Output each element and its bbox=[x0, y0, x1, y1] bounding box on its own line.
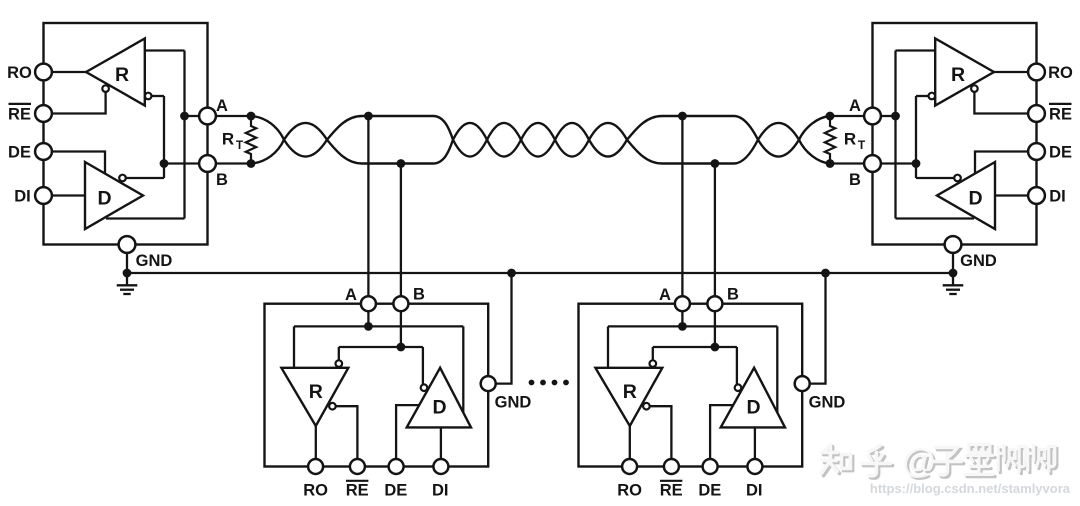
junction bus tap A (U3) bbox=[364, 112, 373, 121]
transceiver U1 (left) outline bbox=[44, 23, 208, 245]
svg-text:DE: DE bbox=[1049, 143, 1072, 161]
transceiver U3 (stub) outline bbox=[265, 304, 489, 467]
wire node B to D inverting output bubble (U3) bbox=[422, 347, 424, 384]
wire bus tap B to U3 bbox=[400, 164, 402, 297]
pin GND of U2 bbox=[945, 236, 962, 253]
enable bubble on R (U2) bbox=[971, 85, 978, 92]
wire DI pin to D input (U4) bbox=[754, 427, 756, 459]
pin B of U1 bbox=[199, 155, 216, 172]
wire bus tap A to U4 bbox=[681, 116, 683, 296]
wire GND pin to ground bus (U1) bbox=[126, 253, 128, 273]
wire pin B to node B (U3) bbox=[400, 311, 402, 347]
wire GND pin to ground bus (U4) bbox=[810, 273, 826, 384]
wire vertical node A link (U1) bbox=[183, 51, 185, 219]
inverting output bubble on D (U3) bbox=[421, 384, 428, 391]
wire RE pin to R enable bubble (U1) bbox=[51, 92, 106, 114]
op-amp (receiver) R of U4 bbox=[595, 368, 662, 426]
pin RO of U1 bbox=[35, 64, 52, 81]
junction RT top (right) bbox=[826, 112, 835, 121]
pin GND of U4 bbox=[795, 376, 810, 391]
junction ground bus (U3) bbox=[507, 269, 516, 278]
wire R inverting input to node B (U2) bbox=[916, 95, 929, 97]
wire bus line B (twisted pair) bbox=[251, 123, 830, 164]
wire DE pin to D enable (U2) bbox=[975, 152, 1030, 174]
svg-text:RO: RO bbox=[1048, 64, 1073, 82]
pin B of U2 bbox=[864, 155, 881, 172]
wire R enable bubble to RE pin (U4) bbox=[650, 406, 672, 459]
svg-text:RO: RO bbox=[7, 64, 32, 82]
inverting output bubble on D (U2) bbox=[954, 175, 961, 182]
pin DI of U4 bbox=[747, 459, 762, 474]
wire bus tap A to U3 bbox=[367, 116, 369, 296]
resistor RT (right termination) bbox=[825, 116, 835, 164]
svg-text:DE: DE bbox=[698, 481, 721, 499]
inverting input bubble B on R (U2) bbox=[929, 93, 936, 100]
wire node B to R inverting input bubble (U3) bbox=[338, 347, 340, 360]
svg-text:R: R bbox=[309, 381, 323, 403]
svg-text:R: R bbox=[115, 64, 129, 86]
wire node A to D non-inverting output (U4) bbox=[776, 326, 778, 415]
pin DI of U2 bbox=[1028, 187, 1045, 204]
wire D inverting output to node B (U1) bbox=[126, 177, 164, 179]
wire D non-inverting output to node A (U1) bbox=[106, 217, 185, 219]
pin B of U3 bbox=[393, 296, 408, 311]
pin DE of U4 bbox=[703, 459, 718, 474]
svg-text:B: B bbox=[849, 171, 861, 189]
svg-text:RE: RE bbox=[660, 481, 683, 499]
wire vertical node A link (U2) bbox=[894, 51, 896, 219]
pin RO of U3 bbox=[308, 459, 323, 474]
wire D non-inverting output to node A (U2) bbox=[896, 217, 975, 219]
wire RO pin to R output (U1) bbox=[51, 71, 87, 73]
transceiver U4 (stub) outline bbox=[579, 304, 803, 467]
pin DE of U1 bbox=[35, 143, 52, 160]
wire R inverting input to node B (U1) bbox=[152, 95, 165, 97]
svg-text:RE: RE bbox=[8, 105, 31, 123]
wire vertical node B link (U2) bbox=[915, 96, 917, 178]
op-amp (driver) D of U2 bbox=[937, 162, 995, 229]
pin RO of U2 bbox=[1028, 64, 1045, 81]
wire U2 pin B to RT bbox=[830, 162, 864, 164]
pin RO of U4 bbox=[622, 459, 637, 474]
wire pin B to node B (U4) bbox=[714, 311, 716, 347]
wire DI pin to D input (U1) bbox=[51, 194, 86, 196]
wire D inverting output to node B (U2) bbox=[916, 177, 954, 179]
op-amp (receiver) R of U3 bbox=[281, 368, 348, 426]
pin RE of U4 bbox=[664, 459, 679, 474]
wire ground bus bbox=[127, 272, 953, 274]
transceiver U2 (right) outline bbox=[873, 23, 1037, 245]
inverting output bubble on D (U1) bbox=[119, 175, 126, 182]
op-amp (driver) D of U1 bbox=[85, 162, 143, 229]
svg-text:D: D bbox=[746, 396, 760, 418]
svg-text:GND: GND bbox=[495, 394, 532, 412]
wire R non-inverting input A (U2) bbox=[896, 49, 936, 51]
wire node A to pin A (U1) bbox=[185, 115, 201, 117]
junction node A (U1) bbox=[180, 112, 189, 121]
wire DI pin to D input (U2) bbox=[995, 194, 1030, 196]
junction RT bottom (left) bbox=[247, 159, 256, 168]
wire node A horizontal (U4) bbox=[608, 325, 777, 327]
svg-text:DI: DI bbox=[1049, 187, 1066, 205]
wire node A horizontal (U3) bbox=[294, 325, 463, 327]
svg-text:T: T bbox=[236, 138, 244, 152]
wire node A to D non-inverting output (U3) bbox=[462, 326, 464, 415]
junction ground bus (U1) bbox=[123, 269, 132, 278]
op-amp (receiver) R of U1 bbox=[86, 39, 145, 106]
pin A of U2 bbox=[864, 108, 881, 125]
wire bus line A (twisted pair) bbox=[251, 116, 830, 157]
junction node B (U2) bbox=[912, 159, 921, 168]
pin RE of U3 bbox=[350, 459, 365, 474]
svg-text:B: B bbox=[413, 286, 425, 304]
op-amp (driver) D of U3 bbox=[407, 368, 471, 428]
pin A of U3 bbox=[361, 296, 376, 311]
junction node B (U1) bbox=[160, 159, 169, 168]
wire bus tap B to U4 bbox=[714, 164, 716, 297]
inverting output bubble on D (U4) bbox=[735, 384, 742, 391]
pin DE of U2 bbox=[1028, 143, 1045, 160]
wire node B to R inverting input bubble (U4) bbox=[652, 347, 654, 360]
junction bus tap A (U4) bbox=[678, 112, 687, 121]
resistor RT (left termination) bbox=[246, 116, 256, 164]
pin GND of U1 bbox=[119, 236, 136, 253]
junction RT bottom (right) bbox=[826, 159, 835, 168]
svg-text:D: D bbox=[968, 188, 982, 210]
svg-text:RO: RO bbox=[617, 481, 642, 499]
wire node B to D inverting output bubble (U4) bbox=[736, 347, 738, 384]
ground symbol (right) bbox=[952, 273, 954, 285]
wire U2 pin A to RT bbox=[830, 115, 864, 117]
wire R output to RO pin (U4) bbox=[629, 424, 631, 459]
svg-text:R: R bbox=[844, 130, 856, 149]
op-amp (receiver) R of U2 bbox=[935, 39, 994, 106]
wire DI pin to D input (U3) bbox=[440, 427, 442, 459]
svg-text:A: A bbox=[345, 286, 357, 304]
junction node A (U3) bbox=[364, 322, 373, 331]
svg-text:DE: DE bbox=[384, 481, 407, 499]
svg-text:RE: RE bbox=[346, 481, 369, 499]
pin DI of U3 bbox=[433, 459, 448, 474]
svg-text:D: D bbox=[97, 188, 111, 210]
svg-text:A: A bbox=[216, 97, 228, 115]
junction ground bus (U4) bbox=[821, 269, 830, 278]
wire GND pin to ground bus (U2) bbox=[952, 253, 954, 273]
wire DE pin to D enable (U4) bbox=[710, 405, 733, 459]
svg-text:DI: DI bbox=[14, 187, 31, 205]
svg-text:GND: GND bbox=[960, 252, 997, 270]
wire node A to R non-inverting input (U4) bbox=[607, 326, 609, 367]
output enable bubble on R (U3) bbox=[329, 403, 336, 410]
wire RE pin to R enable bubble (U2) bbox=[974, 92, 1029, 114]
svg-text:DE: DE bbox=[8, 143, 31, 161]
svg-text:@: @ bbox=[902, 442, 935, 480]
pin RE of U1 bbox=[35, 105, 52, 122]
wire node B horizontal (U4) bbox=[653, 346, 737, 348]
svg-text:GND: GND bbox=[136, 252, 173, 270]
svg-text:DI: DI bbox=[746, 481, 763, 499]
junction node A (U2) bbox=[891, 112, 900, 121]
wire pin A to node A (U3) bbox=[367, 311, 369, 326]
junction RT top (left) bbox=[247, 112, 256, 121]
svg-text:R: R bbox=[951, 64, 965, 86]
pin DE of U3 bbox=[389, 459, 404, 474]
inverting input bubble on R (U4) bbox=[650, 360, 657, 367]
pin GND of U3 bbox=[481, 376, 496, 391]
wire node B to pin B (U2) bbox=[880, 162, 916, 164]
svg-text:RE: RE bbox=[1049, 105, 1072, 123]
svg-text:B: B bbox=[216, 171, 228, 189]
wire RO pin to R output (U2) bbox=[994, 71, 1030, 73]
svg-text:A: A bbox=[849, 97, 861, 115]
wire R output to RO pin (U3) bbox=[315, 424, 317, 459]
watermark text 知乎 @子墨卿卿 (decor recreated as shapes) bbox=[821, 442, 1057, 482]
enable bubble on R (U1) bbox=[102, 85, 109, 92]
inverting input bubble on R (U3) bbox=[336, 360, 343, 367]
op-amp (driver) D of U4 bbox=[721, 368, 785, 428]
wire U1 pin B to RT bbox=[216, 162, 251, 164]
wire U1 pin A to RT bbox=[216, 115, 251, 117]
wire node B horizontal (U3) bbox=[339, 346, 423, 348]
junction ground bus (U2) bbox=[949, 269, 958, 278]
wire pin A to node A (U4) bbox=[681, 311, 683, 326]
svg-text:GND: GND bbox=[809, 394, 846, 412]
ground symbol (left) bbox=[126, 273, 128, 285]
wire node A to pin A (U2) bbox=[880, 115, 896, 117]
svg-text:D: D bbox=[432, 396, 446, 418]
svg-text:B: B bbox=[727, 286, 739, 304]
pin RE of U2 bbox=[1028, 105, 1045, 122]
wire GND pin to ground bus (U3) bbox=[496, 273, 512, 384]
junction node A (U4) bbox=[678, 322, 687, 331]
svg-text:R: R bbox=[222, 130, 234, 149]
svg-text:R: R bbox=[623, 381, 637, 403]
svg-text:T: T bbox=[858, 138, 866, 152]
wire vertical node B link (U1) bbox=[163, 96, 165, 178]
ellipsis dots (more transceivers) bbox=[529, 380, 535, 386]
wire node A to R non-inverting input (U3) bbox=[293, 326, 295, 367]
svg-text:https://blog.csdn.net/stamlyvo: https://blog.csdn.net/stamlyvora bbox=[870, 481, 1071, 496]
pin A of U1 bbox=[199, 108, 216, 125]
pin DI of U1 bbox=[35, 187, 52, 204]
inverting input bubble B on R (U1) bbox=[145, 93, 152, 100]
svg-text:DI: DI bbox=[432, 481, 449, 499]
svg-text:A: A bbox=[659, 286, 671, 304]
pin B of U4 bbox=[707, 296, 722, 311]
junction node B (U3) bbox=[397, 343, 406, 352]
output enable bubble on R (U4) bbox=[643, 403, 650, 410]
wire DE pin to D enable (U1) bbox=[51, 152, 106, 174]
svg-text:RO: RO bbox=[303, 481, 328, 499]
junction bus tap B (U4) bbox=[711, 159, 720, 168]
junction bus tap B (U3) bbox=[397, 159, 406, 168]
wire R enable bubble to RE pin (U3) bbox=[336, 406, 358, 459]
wire R non-inverting input A (U1) bbox=[145, 49, 185, 51]
pin A of U4 bbox=[675, 296, 690, 311]
wire DE pin to D enable (U3) bbox=[396, 405, 419, 459]
junction node B (U4) bbox=[711, 343, 720, 352]
wire node B to pin B (U1) bbox=[164, 162, 200, 164]
